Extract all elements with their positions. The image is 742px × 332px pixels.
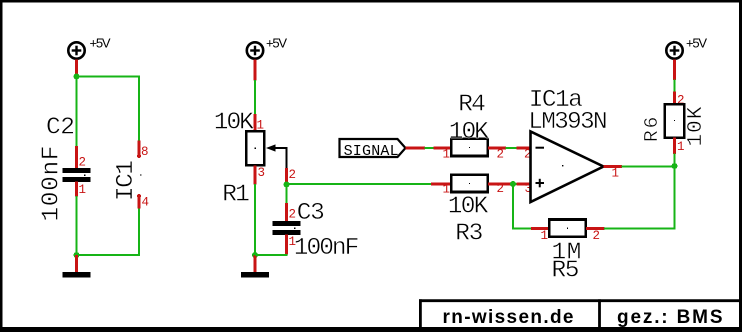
R1 pin 1 (red) xyxy=(254,114,257,132)
svg-text:1: 1 xyxy=(612,167,620,181)
wire up to IC1 pin4 xyxy=(138,208,140,256)
supply pin (red) xyxy=(673,60,676,81)
svg-text:+5V: +5V xyxy=(686,35,707,50)
svg-text:4: 4 xyxy=(142,196,150,210)
C3 pin 1 (red) xyxy=(285,235,288,255)
svg-text:R6: R6 xyxy=(641,117,663,142)
ground symbol GND1 xyxy=(63,272,91,278)
wire junctionC down to C3 xyxy=(285,185,287,204)
wire xyxy=(506,147,518,149)
C3 pin 2 (red) xyxy=(285,203,288,222)
C3 origin dot xyxy=(294,228,295,229)
ground stub (red) xyxy=(254,255,257,273)
supply pin (red) xyxy=(75,60,78,78)
svg-text:1: 1 xyxy=(541,229,549,243)
wire down to IC1 pin8 xyxy=(138,75,140,141)
capacitor C3 plates xyxy=(273,221,301,226)
ground symbol GND2 xyxy=(241,272,269,278)
op-amp U1 triangle xyxy=(531,132,604,203)
wire junctionA to right xyxy=(77,75,140,77)
svg-text:R4: R4 xyxy=(458,92,486,119)
resistor R5 body xyxy=(549,219,586,236)
resistor R4 body xyxy=(451,139,488,156)
junction F xyxy=(672,163,678,169)
junction A xyxy=(74,74,80,80)
R4 pin 1 (red) xyxy=(434,147,452,150)
svg-text:2: 2 xyxy=(497,148,505,162)
svg-text:10K: 10K xyxy=(214,110,254,137)
frame border top xyxy=(0,0,742,3)
svg-text:2: 2 xyxy=(289,208,297,222)
SIGNAL flag xyxy=(340,139,406,157)
SIGNAL pin (red) xyxy=(406,147,426,150)
IC1 pin 4 (red) xyxy=(138,196,141,209)
IC1 origin dot xyxy=(140,174,141,175)
svg-text:C3: C3 xyxy=(297,200,325,227)
svg-text:rn-wissen.de: rn-wissen.de xyxy=(443,307,574,328)
IC1 pin 8 (red) xyxy=(138,141,141,156)
svg-text:10K: 10K xyxy=(685,106,708,146)
R6 pin 2 (red) xyxy=(673,92,676,105)
wire down xyxy=(254,80,256,115)
junction E xyxy=(510,181,516,187)
wire C2 down to junction B xyxy=(75,196,77,255)
svg-text:gez.: BMS: gez.: BMS xyxy=(617,307,723,328)
svg-text:8: 8 xyxy=(141,145,149,159)
svg-text:2: 2 xyxy=(289,168,297,182)
op-amp output pin 1 (red) xyxy=(604,165,623,168)
wire C3 to junction D xyxy=(255,254,287,255)
svg-text:R5: R5 xyxy=(552,258,580,285)
svg-text:C2: C2 xyxy=(46,115,75,142)
junction D xyxy=(252,252,258,258)
R3 pin 1 (red) xyxy=(431,183,452,186)
wire junctionA down to C2 xyxy=(75,77,77,147)
svg-text:2: 2 xyxy=(79,156,87,170)
svg-text:100nF: 100nF xyxy=(39,146,66,222)
R1 wiper arrow xyxy=(266,144,288,168)
svg-text:10K: 10K xyxy=(449,119,489,146)
svg-text:SIGNAL: SIGNAL xyxy=(344,143,399,160)
potentiometer R1 body xyxy=(246,131,264,165)
svg-text:1: 1 xyxy=(443,148,451,162)
wire R6 to junction F xyxy=(673,154,675,167)
op-amp minus pin (red) xyxy=(517,147,532,150)
svg-text:100nF: 100nF xyxy=(294,235,360,262)
svg-text:1: 1 xyxy=(677,140,685,154)
wire xyxy=(673,80,675,93)
R5 pin 2 (red) xyxy=(586,227,605,230)
frame border left xyxy=(0,0,3,332)
wire output to node xyxy=(622,165,675,167)
R1 pin 3 (red) xyxy=(254,166,257,185)
wire xyxy=(425,147,435,149)
R3 pin 2 (red) xyxy=(488,183,511,186)
junction C xyxy=(284,182,290,188)
wire junctionC to R3 xyxy=(287,183,432,185)
svg-text:3: 3 xyxy=(258,166,266,180)
supply +5V symbol 2 xyxy=(247,42,263,58)
supply +5V symbol 1 xyxy=(68,42,84,58)
wiper pin 2 (red) xyxy=(285,168,288,185)
R4 pin 2 (red) xyxy=(488,147,506,150)
R5 pin 1 (red) xyxy=(531,227,550,230)
junction B xyxy=(74,252,80,258)
frame border right xyxy=(739,0,742,332)
wire R5 to output node xyxy=(604,166,675,229)
svg-text:R3: R3 xyxy=(455,221,483,248)
svg-text:R1: R1 xyxy=(222,182,250,209)
C2 pin 2 (red) xyxy=(75,146,78,169)
wire xyxy=(510,183,517,185)
wire junctionB right xyxy=(77,254,140,256)
svg-text:2: 2 xyxy=(497,182,505,196)
svg-text:1: 1 xyxy=(79,183,87,197)
wire R1 pin3 down xyxy=(254,184,256,255)
svg-text:+5V: +5V xyxy=(266,35,287,50)
svg-text:+5V: +5V xyxy=(90,35,111,50)
C2 origin dot xyxy=(84,175,85,176)
svg-text:LM393N: LM393N xyxy=(528,109,607,136)
wire junctionE down and right xyxy=(513,184,532,229)
svg-text:2: 2 xyxy=(593,229,601,243)
R6 pin 1 (red) xyxy=(673,138,676,154)
capacitor C2 plates xyxy=(63,168,91,173)
resistor R6 body xyxy=(665,104,684,137)
svg-text:IC1: IC1 xyxy=(113,160,140,201)
ground stub (red) xyxy=(75,255,78,273)
op-amp plus pin (red) xyxy=(517,183,532,186)
frame border bottom xyxy=(0,327,742,332)
resistor R3 body xyxy=(451,175,488,192)
supply pin (red) xyxy=(254,60,257,81)
title block box xyxy=(419,299,740,327)
C2 pin 1 (red) xyxy=(75,182,78,197)
svg-text:10K: 10K xyxy=(448,194,489,221)
supply +5V symbol 3 xyxy=(666,42,682,58)
